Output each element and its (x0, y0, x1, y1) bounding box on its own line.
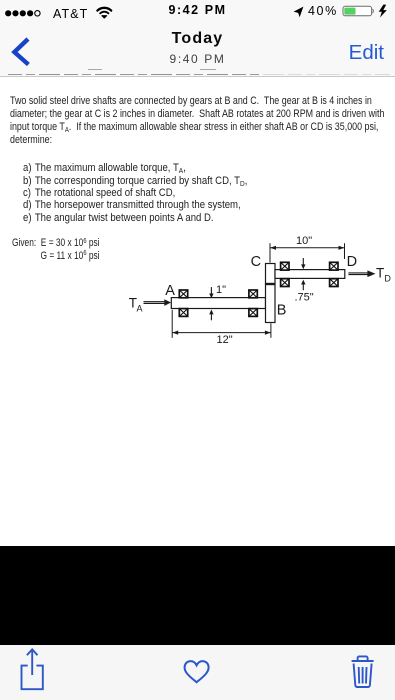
svg-text:12": 12" (217, 334, 233, 346)
gear C (266, 264, 276, 285)
signal dot 4 (27, 10, 33, 16)
top bars background (0, 0, 395, 77)
gear B (266, 284, 276, 323)
charging bolt (379, 5, 387, 18)
battery green fill (344, 8, 355, 15)
svg-text:C: C (251, 254, 261, 270)
black letterbox region (0, 546, 395, 645)
svg-text:B: B (277, 303, 287, 319)
battery percent (308, 5, 338, 18)
svg-text:A: A (165, 283, 175, 299)
signal dot 5 hollow (35, 11, 40, 16)
svg-text:10": 10" (296, 235, 312, 247)
output torque TD arrow (348, 270, 375, 277)
given block (12, 237, 100, 261)
status bar icons left (signal dots + wifi) (0, 0, 130, 22)
dimension 12" line (172, 310, 271, 338)
bearing CD right top (330, 262, 338, 270)
svg-text:T: T (376, 266, 384, 281)
dimension 1" arrows (210, 287, 212, 320)
bearing CD right bottom (330, 279, 338, 287)
gear mesh line (265, 283, 276, 285)
trash icon (348, 652, 380, 692)
carrier AT&T (53, 8, 88, 21)
signal dot 3 (20, 10, 26, 16)
svg-text:A: A (137, 303, 143, 313)
nav back chevron (8, 32, 38, 68)
signal dot 1 (5, 10, 11, 16)
nav subtitle 9:40 PM (0, 53, 395, 65)
problem list a-e (23, 162, 247, 223)
signal dot 2 (12, 10, 18, 16)
bottom toolbar (0, 645, 395, 700)
cut-off text remnants at photo top (8, 74, 390, 75)
status bar right: location, 40%, battery, bolt (270, 0, 395, 22)
bearing CD left bottom (281, 279, 289, 287)
heart icon (181, 657, 213, 687)
bearing AB right bottom (249, 309, 257, 317)
bearing AB right top (249, 290, 257, 298)
shaft CD (275, 270, 345, 279)
problem paragraph text (10, 95, 384, 147)
nav Edit button (349, 43, 384, 64)
input torque TA arrow (double line) (144, 299, 172, 306)
location arrow (294, 7, 304, 18)
svg-text:D: D (347, 254, 357, 270)
svg-text:.75": .75" (295, 291, 314, 303)
battery outline (343, 6, 372, 16)
bearing CD left top (281, 262, 289, 270)
bearing AB left bottom (179, 309, 187, 317)
wifi icon (97, 8, 111, 14)
svg-text:1": 1" (216, 284, 226, 296)
svg-text:D: D (384, 273, 391, 283)
bearing AB left top (179, 290, 187, 298)
dimension 10" line (270, 243, 345, 262)
dimension .75" arrows (302, 258, 304, 290)
shaft AB (171, 298, 265, 309)
share icon (18, 646, 48, 694)
nav title Today (0, 31, 395, 47)
battery cap (372, 9, 373, 13)
diagram (120, 230, 395, 355)
status clock 9:42 PM (0, 4, 395, 17)
